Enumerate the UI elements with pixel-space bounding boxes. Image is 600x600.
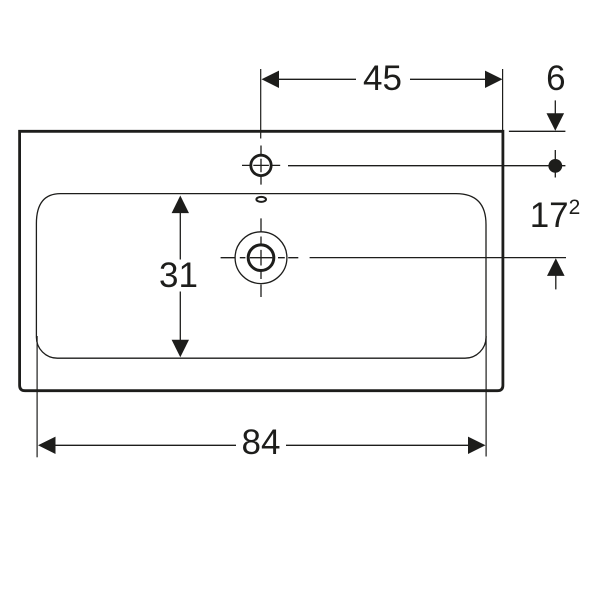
- dimension 6 dot tick: [554, 150, 556, 178]
- leader line rim top extension right: [509, 130, 566, 132]
- extension line right rim vertical: [502, 69, 504, 131]
- overflow slot ellipse: [256, 197, 266, 202]
- basin inner bowl outline: [36, 194, 486, 359]
- arrowhead 17 up: [547, 258, 565, 276]
- svg-text:31: 31: [159, 256, 198, 295]
- svg-text:172: 172: [530, 196, 581, 235]
- arrowhead 6 down: [547, 113, 565, 131]
- dimension line 84: [56, 444, 469, 446]
- extension line tap centre vertical: [260, 69, 262, 139]
- dimension 6 end dot: [548, 159, 562, 173]
- tap hole crosshair horizontal: [242, 164, 280, 166]
- dimension line 45: [279, 78, 486, 80]
- arrowhead 84 right: [468, 437, 486, 454]
- arrowhead 84 left: [38, 437, 56, 454]
- arrowhead 31 up: [172, 196, 189, 214]
- svg-text:84: 84: [242, 423, 281, 462]
- svg-text:45: 45: [363, 59, 402, 98]
- drain hole inner circle: [248, 245, 274, 271]
- extension line bowl left vertical: [36, 336, 38, 457]
- arrowhead 45 left: [262, 71, 280, 88]
- arrowhead 45 right: [485, 71, 503, 88]
- tap hole circle: [251, 155, 271, 175]
- leader line tap centre to dot: [288, 165, 565, 167]
- basin outer rim outline: [20, 131, 503, 390]
- leader line drain centre to arrow: [310, 257, 566, 259]
- dimension 6 arrow tail: [554, 100, 556, 114]
- arrowhead 31 down: [172, 340, 189, 358]
- svg-text:6: 6: [546, 59, 565, 98]
- tap hole crosshair vertical: [260, 146, 262, 185]
- drain crosshair horizontal: [221, 257, 299, 259]
- dimension 17 arrow tail: [555, 275, 557, 289]
- dimension line 31 vertical: [179, 213, 181, 340]
- drain crosshair vertical: [260, 218, 262, 297]
- extension line bowl right vertical: [485, 336, 487, 457]
- drain hole outer circle: [235, 232, 287, 284]
